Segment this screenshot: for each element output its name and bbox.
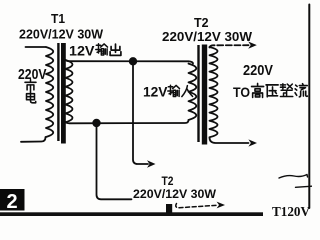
- T2 primary winding (12V input side): [189, 64, 197, 120]
- T2 secondary winding (220V out): [210, 47, 218, 137]
- wire 12V output net (T1 secondary top to T2 primary top): [66, 60, 194, 64]
- arrowhead T2 secondary top: [248, 42, 257, 49]
- wire T2 secondary bottom lead: [210, 138, 249, 144]
- wire T1 primary bottom lead: [21, 137, 46, 142]
- svg-text:T2: T2: [194, 15, 209, 30]
- svg-text:T1: T1: [51, 11, 65, 26]
- CJK glyph 入 (of 输入): [182, 86, 193, 97]
- T1 core bar thin: [57, 43, 59, 141]
- svg-text:TO: TO: [233, 85, 250, 100]
- svg-text:220V: 220V: [243, 63, 273, 79]
- svg-text:12V: 12V: [143, 84, 168, 100]
- CJK glyph 高: [252, 84, 264, 98]
- svg-text:220V/12V 30W: 220V/12V 30W: [133, 187, 216, 201]
- T2 core bar thin: [197, 45, 199, 142]
- svg-text:220V/12V 30W: 220V/12V 30W: [19, 27, 104, 42]
- T1 primary winding (220V): [46, 47, 53, 137]
- svg-text:220V/12V 30W: 220V/12V 30W: [162, 29, 253, 44]
- junction node A (top, 12V bus): [129, 57, 137, 65]
- arrowhead of node A branch: [147, 160, 156, 167]
- stray mark lower (cropped neighbour column): [296, 186, 313, 187]
- page rule (bottom black band): [0, 212, 263, 216]
- CJK glyph 输 (of 输出): [96, 44, 108, 55]
- wire from node A down with arrow: [133, 61, 148, 164]
- CJK glyph 流: [295, 84, 307, 97]
- svg-text:T120V: T120V: [272, 205, 310, 216]
- bottom cropped figure: transformer core bar top: [166, 204, 172, 213]
- T1 secondary winding (12V): [66, 60, 73, 122]
- wire T1 secondary bottom lead / bottom bus: [66, 120, 189, 123]
- CJK glyph 电: [27, 92, 36, 103]
- figure number plate 2: [0, 189, 25, 211]
- wire T1 primary top lead: [26, 46, 46, 48]
- CJK glyph 市: [25, 80, 36, 91]
- stray mark upper (cropped neighbour column): [279, 175, 308, 179]
- svg-text:2: 2: [6, 191, 17, 213]
- svg-text:12V: 12V: [69, 42, 95, 58]
- wire from node B down-left branch: [97, 123, 132, 199]
- CJK glyph 整: [280, 84, 292, 97]
- bottom cropped figure: dashed arrow: [176, 204, 217, 208]
- junction node B (bottom bus): [92, 119, 100, 127]
- CJK glyph 压: [266, 85, 278, 97]
- bottom cropped figure: dashed arrow head: [217, 202, 225, 209]
- page column rule (right border): [308, 5, 310, 209]
- T1 core bar thick: [61, 43, 66, 144]
- CJK glyph 出 (of 输出): [110, 44, 121, 55]
- T2 core bar thick: [202, 45, 207, 145]
- wire T2 secondary top lead (dashed): [210, 45, 249, 47]
- arrowhead T2 secondary bottom: [248, 139, 257, 146]
- CJK glyph 输 (of 输入): [168, 85, 180, 96]
- svg-text:220V: 220V: [18, 67, 47, 83]
